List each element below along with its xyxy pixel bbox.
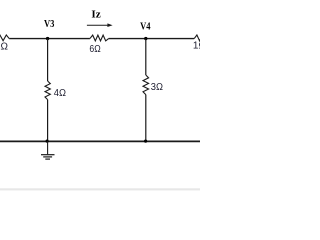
current arrow Iz — [87, 24, 109, 26]
resistor 6Ω — [90, 35, 109, 41]
wire: 3Ω resistor down to bottom wire — [145, 95, 147, 142]
node V3 (junction dot) — [46, 37, 49, 40]
svg-text:3Ω: 3Ω — [151, 82, 164, 93]
node junction dot (bottom, V3 branch) — [46, 140, 49, 143]
svg-text:2Ω: 2Ω — [0, 42, 8, 53]
wire: V3 node down to 4Ω resistor — [47, 39, 49, 81]
svg-text:4Ω: 4Ω — [54, 88, 67, 99]
svg-text:1Ω: 1Ω — [193, 40, 200, 51]
ground — [41, 141, 55, 159]
wire: 4Ω resistor down to bottom wire — [47, 100, 49, 142]
wire top: 6Ω resistor to right resistor — [109, 38, 195, 40]
resistor R-left (partial, left edge) — [0, 35, 9, 41]
resistor 4Ω — [45, 81, 50, 100]
wire: V4 node down to 3Ω resistor — [145, 39, 147, 75]
resistor 3Ω — [143, 75, 149, 95]
svg-text:V3: V3 — [44, 19, 54, 30]
node junction dot (bottom, V4 branch) — [144, 140, 147, 143]
resistor R-right (partial, right edge) — [194, 35, 202, 41]
svg-text:V4: V4 — [140, 22, 150, 33]
wire bottom (full width) — [0, 140, 200, 142]
svg-text:6Ω: 6Ω — [89, 44, 101, 55]
wire top: left resistor to 6Ω resistor — [9, 38, 90, 40]
grey divider line near bottom — [0, 188, 200, 190]
svg-text:Iz: Iz — [91, 10, 101, 21]
node V4 (junction dot) — [144, 37, 147, 40]
